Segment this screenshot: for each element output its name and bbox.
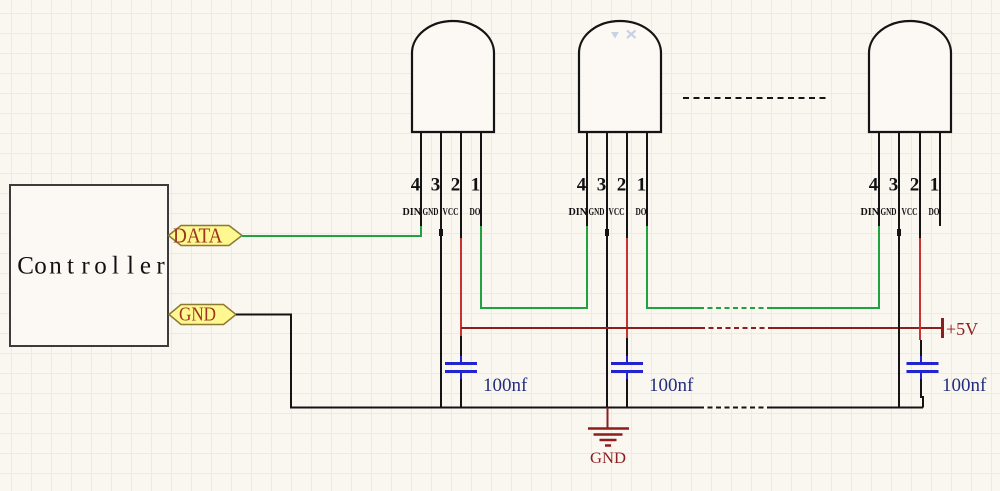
svg-text:VCC: VCC (609, 206, 625, 218)
svg-text:GND: GND (590, 450, 626, 467)
capacitor C1 (445, 356, 477, 379)
svg-text:3: 3 (889, 175, 899, 196)
LED D2 pin names DIN GND VCC DO (569, 206, 647, 218)
capacitor C2 (611, 356, 643, 379)
svg-text:DIN: DIN (569, 206, 588, 218)
svg-text:+5V: +5V (946, 319, 978, 339)
svg-text:DIN: DIN (861, 206, 880, 218)
wire GND net from flag to bottom bus (236, 315, 699, 408)
LED D1 body (412, 21, 494, 132)
LED D2 pin 4 DIN stub (586, 132, 588, 226)
svg-text:3: 3 (431, 175, 441, 196)
wire LED D2 GND pin to bus (606, 226, 608, 408)
svg-text:4: 4 (577, 175, 587, 196)
LED D3 body (869, 21, 951, 132)
editor UI marker X (627, 31, 636, 39)
svg-text:100nf: 100nf (483, 375, 528, 396)
editor UI marker triangle (611, 32, 619, 39)
svg-text:1: 1 (930, 175, 940, 196)
LED D2 pin 1 DO stub (646, 132, 648, 226)
wire LED D3 GND pin to bus (898, 226, 900, 408)
LED D3 pin 3 GND stub (898, 132, 900, 226)
svg-text:4: 4 (411, 175, 421, 196)
svg-text:2: 2 (451, 175, 461, 196)
svg-text:DIN: DIN (403, 206, 422, 218)
wire GND bus dashed continuation (699, 407, 772, 409)
svg-text:3: 3 (597, 175, 607, 196)
LED D3 pin names DIN GND VCC DO (861, 206, 940, 218)
+5V bus (dark red) (461, 327, 700, 329)
svg-text:4: 4 (869, 175, 879, 196)
wire LED D2 DO to LED D3 DIN (green, with dashed continuation) (647, 226, 699, 308)
svg-text:1: 1 (637, 175, 647, 196)
svg-text:100nf: 100nf (942, 375, 987, 396)
LED D2 pin 3 GND stub (606, 132, 608, 226)
LED D1 pin 2 VCC stub (460, 132, 462, 238)
wire LED D1 VCC pin to +5V bus (red) (460, 238, 462, 336)
LED D1 pin numbers 4 3 2 1 (411, 175, 481, 196)
svg-text:GND: GND (589, 206, 605, 218)
+5V power port bar (941, 318, 944, 338)
wire LED D2 VCC pin to +5V bus (red) (626, 238, 628, 338)
capacitor C3 (907, 356, 939, 379)
junction dot LED D2 GND pin (605, 229, 609, 236)
svg-text:2: 2 (617, 175, 627, 196)
dashed continuation marks between LED D2 and LED D3 (683, 97, 828, 99)
LED D1 pin 4 DIN stub (420, 132, 422, 226)
svg-text:GND: GND (423, 206, 439, 218)
net flag DATA (169, 224, 243, 248)
svg-text:GND: GND (881, 206, 897, 218)
svg-text:VCC: VCC (443, 206, 459, 218)
ground symbol GND (588, 408, 629, 446)
junction dot LED D3 GND pin (897, 229, 901, 236)
LED D3 pin numbers 4 3 2 1 (869, 175, 940, 196)
wire LED D3 VCC pin through +5V bus (red) (919, 238, 921, 340)
svg-text:2: 2 (910, 175, 920, 196)
svg-text:DATA: DATA (173, 224, 223, 248)
wire DATA net (green, controller to LED1 DIN) (242, 226, 421, 236)
wire LED D1 DO to LED D2 DIN (green) (481, 226, 587, 308)
capacitor C3 leads (921, 340, 923, 408)
svg-text:100nf: 100nf (649, 375, 694, 396)
capacitor C1 leads (460, 336, 462, 408)
junction dot LED D1 GND pin (439, 229, 443, 236)
svg-text:DO: DO (470, 206, 481, 218)
LED D1 pin 1 DO stub (480, 132, 482, 226)
svg-text:DO: DO (636, 206, 647, 218)
LED D2 pin numbers 4 3 2 1 (577, 175, 647, 196)
svg-text:VCC: VCC (902, 206, 918, 218)
svg-text:GND: GND (179, 304, 216, 326)
LED D3 pin 4 DIN stub (878, 132, 880, 226)
LED D1 pin 3 GND stub (440, 132, 442, 226)
controller box U1 (10, 185, 168, 346)
wire GND bus right section (772, 407, 923, 409)
wire LED D1 GND pin to bus (440, 226, 442, 408)
svg-text:DO: DO (929, 206, 940, 218)
LED D3 pin 1 DO stub (939, 132, 941, 226)
LED D2 pin 2 VCC stub (626, 132, 628, 238)
capacitor C2 leads (626, 338, 628, 408)
LED D2 body (579, 21, 661, 132)
LED D1 pin names DIN GND VCC DO (403, 206, 481, 218)
LED D3 pin 2 VCC stub (919, 132, 921, 238)
svg-text:1: 1 (471, 175, 481, 196)
net flag GND (169, 304, 236, 326)
